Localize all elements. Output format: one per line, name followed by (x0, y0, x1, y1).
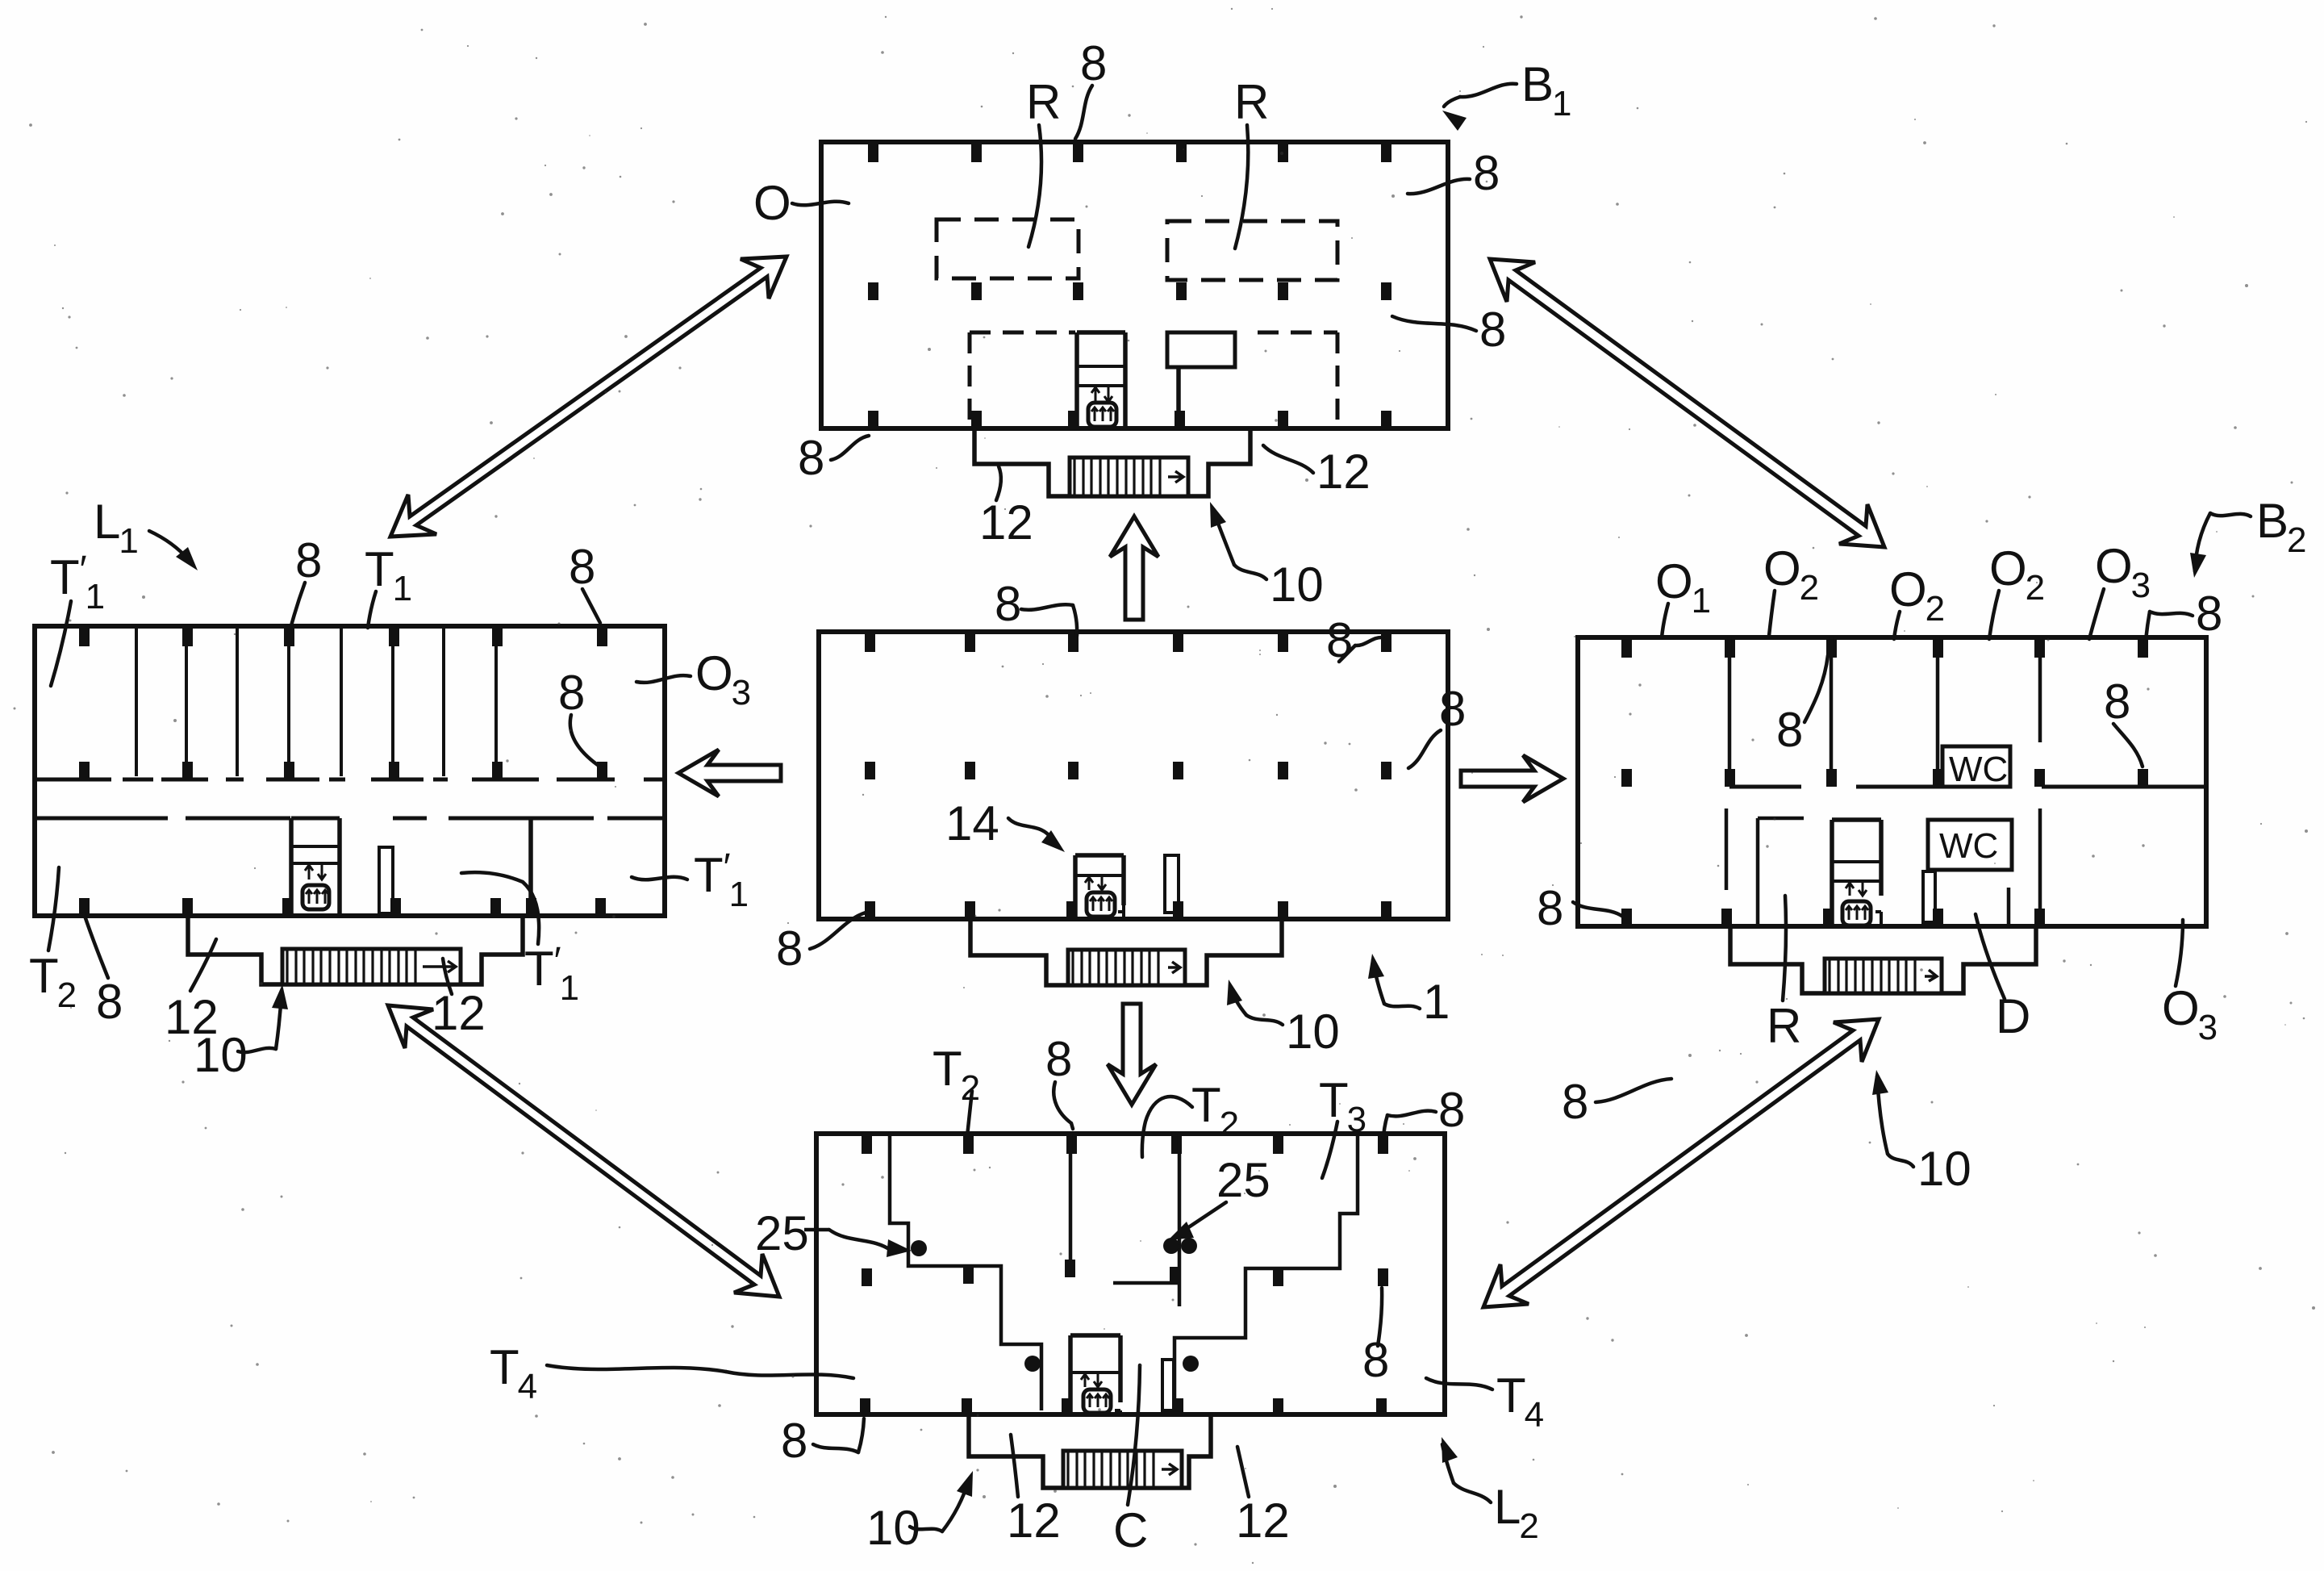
center ticks bottom row (865, 901, 1391, 919)
label 8 below B2 (1562, 1075, 1671, 1129)
svg-text:12: 12 (1236, 1494, 1290, 1548)
svg-text:12: 12 (432, 986, 486, 1040)
svg-text:8: 8 (776, 921, 803, 976)
B2 corridor wall (with door gaps) (1729, 785, 2206, 789)
L2 floating ticks middle row (862, 1266, 1388, 1286)
L1 room partitions (136, 629, 496, 776)
L1 column ticks middle row (79, 762, 607, 779)
label 12 left of B1 (979, 466, 1033, 549)
svg-text:8: 8 (1479, 303, 1506, 357)
label R of B2 (1767, 896, 1801, 1053)
B2 bottom edge with dashed parts (1578, 924, 2206, 929)
label 8 top-right of B1 (1408, 146, 1500, 200)
label R right (1234, 75, 1269, 249)
label 12 below L1 right (432, 959, 486, 1040)
L1 corridor wall upper (with door gaps) (35, 778, 665, 782)
B2 staircase (1825, 959, 1942, 993)
svg-text:10: 10 (1917, 1142, 1971, 1196)
B1 lower-right dashed walls (1258, 332, 1337, 422)
svg-text:12: 12 (979, 495, 1033, 549)
label 1 (1368, 954, 1450, 1029)
label O2 a (1763, 541, 1819, 636)
label 8 inside center (1408, 682, 1466, 768)
label 8 bottom-left of B1 (798, 431, 869, 485)
svg-text:WC: WC (1949, 750, 2008, 789)
svg-text:14: 14 (945, 796, 999, 850)
label 14 (945, 796, 1065, 852)
L2 ticks top row (862, 1136, 1388, 1154)
label 8 inside B2 upper (1776, 655, 1828, 757)
label O3 right of L1 (636, 646, 751, 712)
L2 elevator core (1062, 1335, 1120, 1416)
hollow arrow up to B1 (1110, 516, 1158, 620)
svg-text:8: 8 (1562, 1075, 1588, 1129)
B2 duct bar (1923, 871, 1943, 926)
label 8 left of B2 (1537, 881, 1623, 935)
L1 corridor wall lower (with door gaps) (35, 817, 665, 821)
label 12 below L2 left (1007, 1435, 1061, 1548)
svg-text:8: 8 (1080, 36, 1107, 90)
svg-text:10: 10 (1286, 1005, 1340, 1059)
label T1 above L1 (365, 542, 412, 628)
svg-text:8: 8 (1362, 1333, 1389, 1387)
L1 plan outline (35, 626, 665, 916)
hollow arrow right to B2 (1461, 755, 1563, 802)
L2 apartment T3/T4 stepped wall (1175, 1134, 1358, 1410)
center duct bar (1165, 855, 1183, 919)
center ticks middle row (865, 762, 1391, 779)
label O3 top of B2 (2089, 539, 2151, 639)
svg-text:R: R (1026, 75, 1061, 129)
label 10 of B1 (1210, 502, 1324, 612)
L2 apartment T2 middle left wall (1065, 1134, 1075, 1277)
label B1 (1442, 57, 1572, 131)
L2 entrance protrusion (969, 1414, 1211, 1488)
label L2 (1442, 1437, 1539, 1546)
L2 ticks bottom row (860, 1398, 1387, 1416)
L1 lower room wall (526, 818, 536, 916)
label T4 right (1426, 1368, 1544, 1435)
double arrow L1-B1 (390, 257, 786, 537)
B2 office partitions (1729, 637, 2040, 787)
label R left (1026, 75, 1061, 247)
center bottom edge with dashed parts (819, 917, 1448, 921)
label 8 below L2 (781, 1414, 864, 1468)
B2 room R walls (1758, 818, 1804, 926)
label 8 above center right (1326, 613, 1383, 667)
B1 column ticks top row (868, 144, 1391, 162)
svg-text:R: R (1234, 75, 1269, 129)
svg-text:12: 12 (1007, 1494, 1061, 1548)
B2 lower-right wall (2034, 808, 2045, 926)
center plan outline (819, 632, 1448, 919)
L1 elevator core (282, 818, 340, 916)
label 8 above L2 (1045, 1032, 1073, 1129)
svg-text:10: 10 (1270, 558, 1324, 612)
svg-text:O: O (753, 176, 791, 230)
B2 room D wall (2007, 888, 2011, 926)
B2 entrance protrusion (1730, 926, 2036, 993)
svg-text:8: 8 (1473, 146, 1500, 200)
double arrow B2-L2 (1483, 1019, 1879, 1307)
label 8 above L1 (290, 533, 322, 632)
B1 lower-left dashed room (970, 332, 1075, 426)
label D of B2 (1976, 914, 2030, 1043)
label 12 below L2 right (1236, 1447, 1290, 1548)
label 25 right (1168, 1153, 1270, 1240)
svg-text:8: 8 (781, 1414, 807, 1468)
L1 entrance protrusion (188, 916, 523, 984)
center entrance protrusion 10 (970, 919, 1282, 985)
svg-text:8: 8 (2196, 587, 2222, 641)
L1 duct bar (379, 847, 401, 916)
B1 bottom edge with dashed parts (821, 426, 1448, 431)
B1 P-shaped room (1167, 332, 1235, 428)
svg-text:8: 8 (1045, 1032, 1072, 1086)
svg-text:8: 8 (558, 666, 585, 720)
B1 staircase (1070, 458, 1188, 496)
B1 entrance protrusion (974, 428, 1250, 496)
label 8 inside L2 right (1362, 1288, 1389, 1387)
label T1p top-left (50, 549, 105, 686)
label O1 (1655, 554, 1711, 637)
svg-text:25: 25 (1216, 1153, 1270, 1207)
label O (753, 176, 849, 230)
label 12 below L1 (165, 939, 219, 1044)
center elevator core 14 (1066, 855, 1124, 919)
svg-text:8: 8 (798, 431, 824, 485)
label T3 (1319, 1073, 1366, 1178)
label T2 of L2 left (933, 1042, 980, 1136)
label C (1113, 1365, 1148, 1557)
label 8 above L1 right (569, 540, 600, 623)
double arrow B1-B2 (1490, 259, 1884, 547)
svg-text:8: 8 (96, 975, 123, 1029)
L2 bottom edge with dashed parts (816, 1412, 1445, 1417)
label 12 right of B1 (1263, 445, 1371, 499)
label 8 above center left (995, 577, 1077, 636)
label T2 of L1 (29, 867, 77, 1015)
L2 duct bar (1162, 1360, 1183, 1416)
double arrow L1-L2 (388, 1005, 779, 1297)
svg-text:1: 1 (1423, 975, 1450, 1029)
label T2 of L2 mid (1142, 1078, 1239, 1157)
B2 ticks middle row (1621, 769, 2148, 787)
label 8 inside B2 right (2104, 675, 2143, 767)
label T4 left (490, 1340, 853, 1406)
center ticks top row (865, 634, 1391, 652)
hollow arrow left to L1 (678, 750, 781, 796)
L1 bottom edge with dashed parts (35, 913, 665, 918)
label O2 c (1989, 541, 2045, 639)
svg-text:C: C (1113, 1503, 1148, 1557)
svg-text:8: 8 (2104, 675, 2130, 729)
L2 apartment T2 left stepped wall (890, 1134, 1041, 1410)
B2 column tick bottom left (1621, 909, 1632, 926)
L2 middle unit door wall (1113, 1281, 1179, 1285)
svg-text:8: 8 (569, 540, 595, 594)
B2 ticks top row (1621, 640, 2148, 658)
L2 staircase C (1063, 1451, 1182, 1488)
svg-text:8: 8 (1438, 1083, 1465, 1137)
label 8 top-right of L2 (1383, 1083, 1465, 1138)
L1 column ticks top row (79, 629, 607, 646)
svg-text:8: 8 (1776, 703, 1803, 757)
label O2 b (1889, 562, 1945, 639)
L1 staircase (282, 949, 461, 984)
svg-text:8: 8 (295, 533, 322, 587)
svg-text:25: 25 (755, 1206, 809, 1260)
svg-text:10: 10 (194, 1028, 248, 1082)
svg-text:12: 12 (1316, 445, 1371, 499)
label 8 right-mid of B1 (1392, 303, 1506, 357)
label 8 below L1 (84, 913, 123, 1029)
B1 column ticks bottom row (868, 411, 1391, 428)
center staircase 12 (1068, 950, 1185, 985)
B1 dashed room R left (937, 219, 1079, 278)
label 10 below center (1227, 980, 1340, 1059)
L2 plan outline (816, 1134, 1445, 1414)
B2 plan outline (1578, 637, 2206, 926)
B2 lower-left wall (1721, 808, 1732, 926)
svg-text:WC: WC (1939, 826, 1998, 866)
L2 junction points 25 (dots) (911, 1238, 1199, 1372)
B2 WC room lower (1928, 820, 2012, 870)
label 25 left (755, 1206, 912, 1260)
svg-text:8: 8 (1439, 682, 1466, 736)
svg-text:8: 8 (995, 577, 1021, 631)
label T1p mid-right (632, 846, 749, 914)
label B2 (2190, 494, 2307, 578)
label 8 top-right of B2 (2145, 587, 2222, 655)
hollow arrow down to L2 (1108, 1004, 1156, 1105)
B1 plan outline (821, 142, 1448, 428)
svg-text:D: D (1996, 989, 2030, 1043)
label 8 top of B1 (1075, 36, 1107, 139)
B2 elevator core (1823, 820, 1881, 926)
B1 column ticks middle row (868, 282, 1391, 300)
L1 column ticks bottom row (79, 898, 606, 916)
B2 WC room upper (1942, 746, 2010, 789)
svg-text:R: R (1767, 999, 1801, 1053)
label 8 inside L1 (558, 666, 601, 767)
B1 dashed room R right (1167, 221, 1337, 280)
label T1p bottom (461, 872, 579, 1008)
label 10 below L1 (194, 984, 288, 1082)
label 10 below B2 (1872, 1070, 1971, 1196)
label L1 (94, 495, 198, 570)
B1 elevator core (1068, 332, 1125, 428)
label O3 bottom of B2 (2162, 920, 2218, 1047)
svg-text:8: 8 (1537, 881, 1563, 935)
L2 apartment T2/T3 wall (1170, 1134, 1180, 1306)
label 10 below L2 (866, 1471, 973, 1555)
label 8 bottom-left of center (776, 913, 866, 976)
